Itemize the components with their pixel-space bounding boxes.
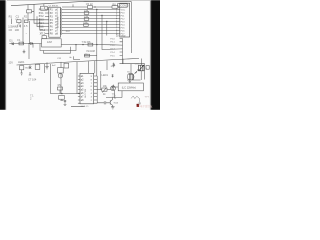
svg-text:10k: 10k [15,19,18,21]
capacitor C10 [112,85,118,90]
svg-text:10k: 10k [103,84,108,88]
LED D3 arrows [112,63,114,68]
resistor R2 top box [41,6,48,10]
svg-text:P3.3: P3.3 [39,20,44,22]
junction dots [29,6,108,45]
svg-text:YYY: YYY [145,96,150,98]
buzzer area box [120,59,145,80]
bus wires to connector [62,10,120,34]
svg-text:IN4148: IN4148 [87,49,96,53]
svg-text:P3.0: P3.0 [39,9,44,11]
IC U2 body [80,73,94,104]
buzzer LS1 [139,65,144,71]
svg-text:7.5k R6: 7.5k R6 [82,40,91,44]
resistor on bus row2 [84,12,89,15]
svg-text:P3.1: P3.1 [39,13,44,15]
svg-text:12V: 12V [8,60,13,64]
right black scan bar [151,0,161,110]
wire drops [45,64,51,94]
wire mid2 [84,55,97,57]
resistor on bus row6 [84,24,89,27]
left black scan bar [0,0,6,110]
wire top-left feed [28,4,49,11]
resistor R3 [19,42,24,45]
svg-text:7805: 7805 [25,68,31,70]
page top scan artifact line [7,0,150,2]
svg-text:P3.5: P3.5 [39,26,44,28]
zigzag resistor bottom right [131,96,141,104]
page background [0,0,160,110]
wire top bus y7 [62,4,120,7]
svg-text:C5 22: C5 22 [86,2,93,6]
wire verticals mid [61,56,95,93]
small box mid [64,63,69,68]
svg-text:R8: R8 [112,2,116,6]
diode D2 arrow [31,42,33,44]
svg-text:VCC: VCC [121,9,126,11]
capacitor C3 [20,70,22,76]
svg-text:U1 89C51: U1 89C51 [49,6,60,8]
regulator U3 7805 box [20,66,24,70]
svg-text:XTL1: XTL1 [40,30,46,32]
connector J1 body [120,3,130,37]
crystal Y1 small box [42,36,46,39]
svg-text:C6: C6 [9,28,13,32]
frame right border [130,2,132,53]
svg-text:XTL2: XTL2 [40,33,46,35]
capacitor C1 top box [27,10,32,13]
lower stub rows collector wire [120,38,123,63]
diode D1 [9,42,41,44]
svg-text:100: 100 [15,28,20,32]
wire mid [61,44,122,47]
LCD module box [118,83,143,91]
svg-text:YYL: YYL [112,97,117,99]
svg-text:R9: R9 [58,83,62,87]
power rail [17,58,140,65]
capacitor C5 mid top [88,6,93,9]
left rail wire [12,18,30,44]
capacitor C9 on base wire [97,101,110,104]
vertical bus lines [97,10,123,90]
resistor R10 [58,87,63,90]
ground [45,62,49,69]
connector J1 header box [118,4,128,8]
transistor Q3 9013 [110,98,113,107]
red watermark [137,104,153,108]
wire row [51,90,81,94]
trimpot RP1 [102,88,107,91]
battery B1 symbol [18,25,21,28]
svg-text:R1: R1 [9,15,13,19]
wire LCD drop [106,91,122,98]
capacitor C4 [29,65,32,75]
plus box right of buzzer [146,66,149,70]
frame top border [11,1,132,5]
svg-text:1.5V(4): 1.5V(4) [8,24,17,28]
U1 left pin stubs [45,7,49,34]
wire drop to regulator [23,44,33,60]
svg-text:电子发烧友: 电子发烧友 [140,104,153,108]
svg-text:LED1: LED1 [102,73,109,77]
resistor on bus row4 [84,18,89,21]
svg-text:SLC7366: SLC7366 [85,88,87,98]
resistor R8 top right [112,6,118,9]
svg-text:(LC 12MHz): (LC 12MHz) [122,85,136,89]
crystal oscillator box [58,68,64,73]
transistor Q1 [111,86,116,91]
small box right [24,20,28,23]
svg-text:CON10: CON10 [121,4,130,7]
ground Q3 [111,107,115,109]
op IC U1 body [49,7,61,37]
relay K1 box [35,64,40,69]
capacitor C12 bars [60,100,66,105]
svg-text:4.5: 4.5 [24,24,28,28]
svg-text:AT89C2051: AT89C2051 [57,16,60,28]
svg-text:D1: D1 [9,39,13,43]
svg-text:R2: R2 [24,15,28,19]
wire bottom of buzzer [127,59,142,81]
svg-text:TTL: TTL [112,94,117,96]
base arrow [129,71,137,82]
capacitor C2 small box [17,20,21,23]
svg-text:LED1: LED1 [18,60,25,64]
loop wires below U1 [42,39,62,47]
oscillator circle [58,74,62,78]
svg-text:12M: 12M [47,40,52,44]
U2 left pin stubs [78,76,80,103]
diode D4 [112,74,114,77]
svg-text:1 2 3 4 5: 1 2 3 4 5 [81,106,90,108]
resistor R6 [88,43,93,46]
svg-text:P3.2: P3.2 [39,16,44,18]
svg-text:C7 104: C7 104 [28,78,37,82]
svg-text:GND: GND [121,35,126,37]
tiny text labels [8,2,149,102]
capacitor C8 box [59,96,65,100]
U2 right pin stubs [94,76,102,103]
staircase wires to U1 left pins [28,11,45,30]
resistor R7 box [85,54,90,57]
junction [61,93,62,94]
U1 right pin bubbles [60,9,62,11]
svg-text:P3.4: P3.4 [39,23,44,25]
transistor Q2 hatch [127,73,134,80]
